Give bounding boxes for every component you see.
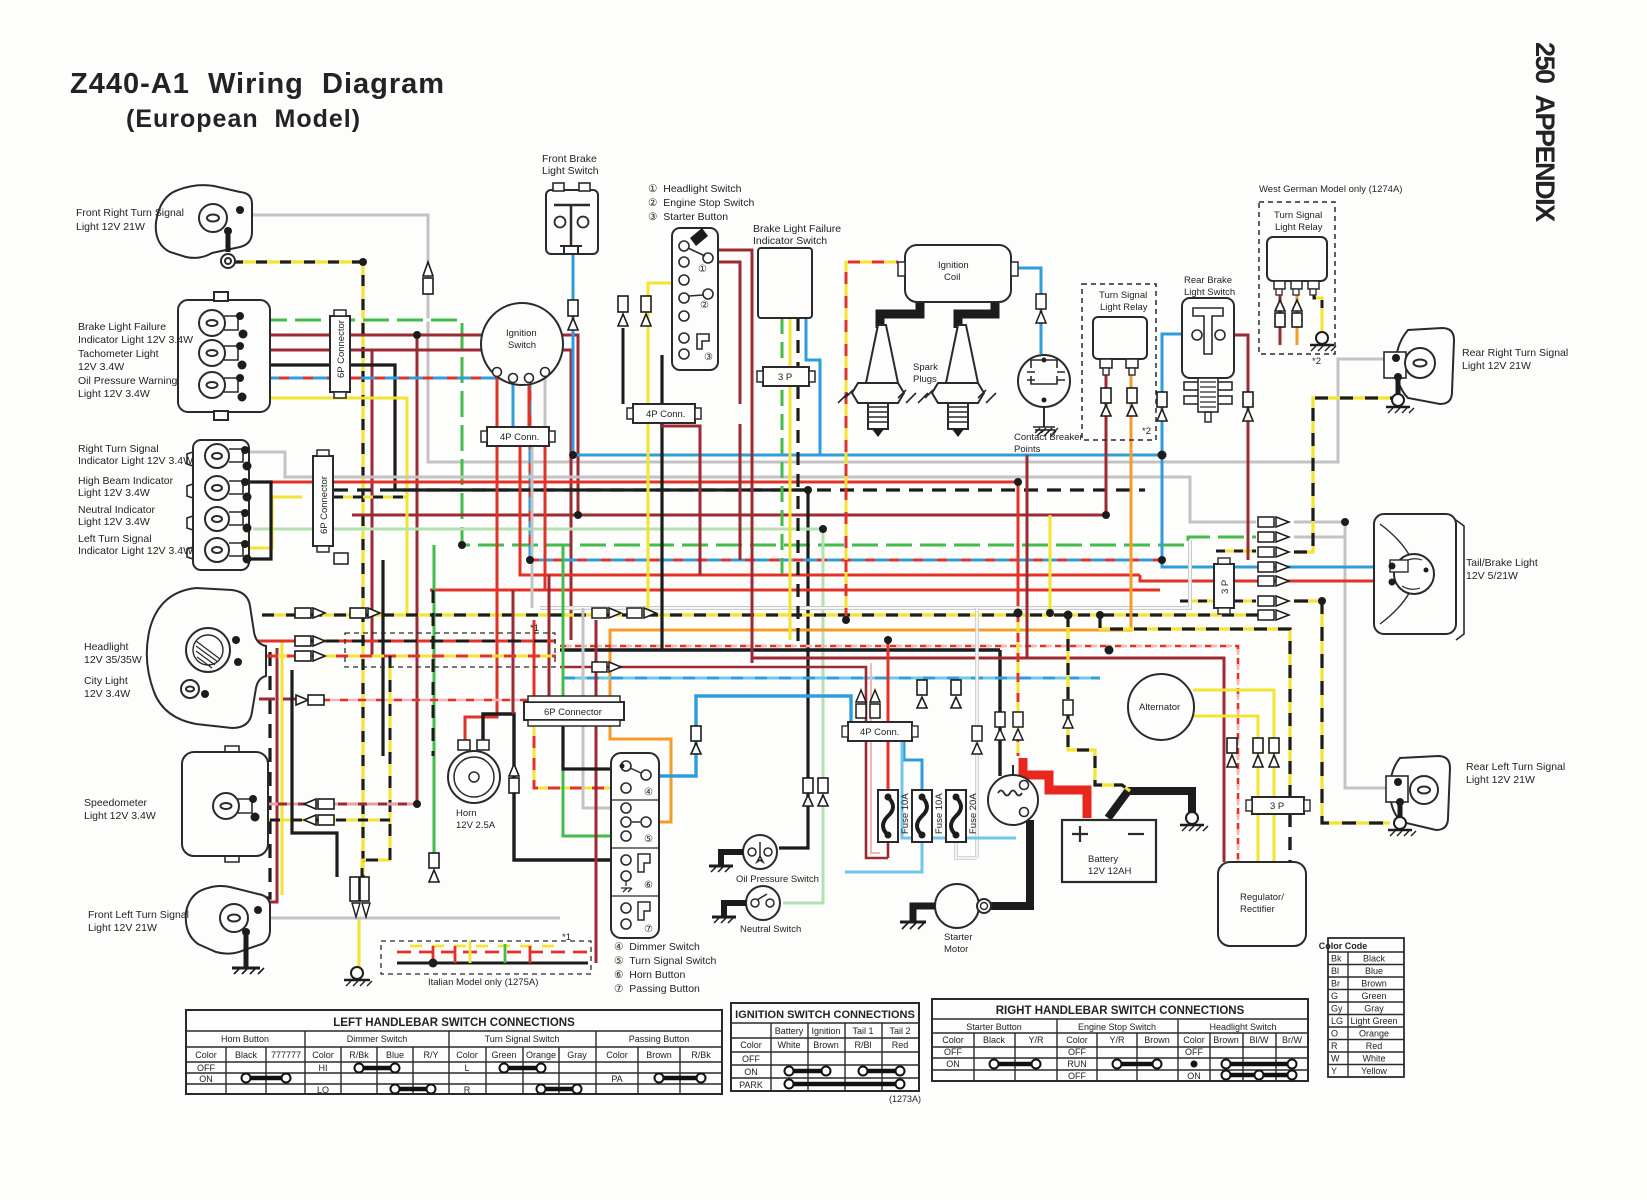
wire: italian box red	[397, 951, 588, 954]
wire: maroon vertical x430	[416, 335, 419, 804]
wire: red long center	[430, 589, 1160, 592]
svg-text:Orange: Orange	[1359, 1029, 1389, 1039]
relay: Turn Signal Light Relay (West German Model, dashed box)	[1259, 202, 1335, 354]
svg-text:Turn Signal: Turn Signal	[1274, 210, 1322, 221]
svg-text:Turn Signal Switch: Turn Signal Switch	[485, 1034, 560, 1044]
fuse: Fuse 10A (1)	[878, 790, 898, 842]
switch housing: left handlebar switch (dimmer/turn/horn/passing)	[611, 753, 659, 938]
svg-text:3 P: 3 P	[1270, 801, 1284, 812]
wire: headlight black lead	[236, 617, 250, 638]
starter relay	[988, 765, 1038, 825]
svg-text:12V 3.4W: 12V 3.4W	[84, 688, 130, 700]
svg-text:OFF: OFF	[1185, 1047, 1203, 1057]
svg-text:Rear Brake: Rear Brake	[1184, 275, 1232, 286]
svg-text:⑥ Horn Button: ⑥ Horn Button	[614, 969, 685, 981]
svg-text:Black: Black	[1363, 954, 1386, 964]
switch: Oil Pressure Switch	[743, 835, 777, 869]
svg-text:*1: *1	[562, 932, 571, 943]
svg-text:*2: *2	[1312, 356, 1321, 367]
horn 12V 2.5A	[448, 740, 500, 803]
svg-text:Indicator Light 12V 3.4W: Indicator Light 12V 3.4W	[78, 334, 193, 346]
svg-text:Light 12V 3.4W: Light 12V 3.4W	[78, 388, 150, 400]
svg-text:Regulator/: Regulator/	[1240, 892, 1284, 903]
svg-text:City Light: City Light	[84, 675, 128, 687]
svg-text:Color: Color	[195, 1050, 217, 1060]
svg-text:12V 3.4W: 12V 3.4W	[78, 361, 124, 373]
svg-text:Front Right Turn Signal: Front Right Turn Signal	[76, 207, 184, 219]
wire: maroon from right switch to 4P conn	[718, 262, 740, 404]
svg-text:Color Code: Color Code	[1319, 941, 1368, 951]
svg-text:3 P: 3 P	[778, 372, 792, 383]
wire: black from brake light failure switch	[796, 318, 799, 648]
svg-text:Right Turn Signal: Right Turn Signal	[78, 443, 159, 455]
svg-text:Speedometer: Speedometer	[84, 797, 148, 809]
relay: Turn Signal Light Relay (dashed box)	[1082, 284, 1156, 440]
wire: italian box black	[397, 962, 588, 965]
ground: front left turn signal ground	[232, 932, 264, 974]
ground: rear left turn signal ground	[1388, 802, 1416, 836]
svg-text:6P Connector: 6P Connector	[544, 707, 602, 718]
svg-text:Y/R: Y/R	[1109, 1035, 1125, 1045]
svg-text:Headlight: Headlight	[84, 641, 128, 653]
TABLES	[186, 938, 1404, 1104]
wire: black stub into 4P conn	[622, 328, 625, 404]
lamp: Front Right Turn Signal Light 12V 21W	[156, 185, 252, 268]
wire: maroon vertical right of coil	[1026, 455, 1029, 658]
wire: blue below 4P conn fuse area	[902, 741, 1016, 838]
svg-text:Brown: Brown	[1361, 979, 1387, 989]
wire: thick black coil to spark plug 2	[958, 300, 995, 328]
svg-text:Indicator Light 12V 3.4W: Indicator Light 12V 3.4W	[78, 455, 193, 467]
svg-text:777777: 777777	[271, 1050, 301, 1060]
svg-text:G: G	[1331, 991, 1338, 1001]
svg-text:Coil: Coil	[944, 272, 960, 283]
svg-text:250 APPENDIX: 250 APPENDIX	[1530, 42, 1560, 222]
wire: green 6P to left switch	[563, 545, 619, 836]
wire: black from right switch to 4P conn	[660, 355, 663, 404]
wire: red long upper	[520, 574, 1140, 577]
fuse: Fuse 20A	[946, 790, 966, 842]
svg-text:ON: ON	[1187, 1071, 1201, 1081]
wire: maroon long y515 to turn signal relay	[352, 375, 1106, 515]
svg-text:②: ②	[700, 300, 709, 311]
inline connector: light green neutral arrow	[818, 778, 828, 806]
wire: light green from neutral indicator to neutral switch	[253, 529, 823, 903]
wire: red/yellow dashed in *1 box	[300, 655, 556, 658]
wire: black long center	[560, 648, 1000, 651]
svg-text:Headlight Switch: Headlight Switch	[1209, 1022, 1276, 1032]
wire: blue from brake light failure switch right	[806, 318, 820, 455]
wire: gray tail light feed after connector	[1294, 536, 1345, 539]
inline connector: yellow/black battery feed	[1063, 700, 1073, 728]
inline connector: column feeding tail lamp	[1258, 517, 1289, 620]
wire: yellow/black stub to connector row 601	[1180, 600, 1256, 603]
inline connector: west german stubs arrows	[1275, 300, 1302, 327]
svg-text:Bl/W: Bl/W	[1250, 1035, 1270, 1045]
wire: contact breaker to harness	[1043, 354, 1045, 355]
svg-text:Z440-A1 Wiring Diagram: Z440-A1 Wiring Diagram	[70, 68, 445, 100]
wire: big blue route from left switch to 4P conn	[653, 696, 851, 776]
svg-text:Horn: Horn	[456, 808, 477, 819]
svg-text:Neutral Switch: Neutral Switch	[740, 924, 801, 935]
svg-text:④: ④	[644, 787, 653, 798]
lamp: Headlight 12V 35/35W with City Light	[147, 588, 266, 728]
svg-text:Starter Button: Starter Button	[966, 1022, 1022, 1032]
svg-text:Neutral Indicator: Neutral Indicator	[78, 504, 156, 516]
wire: blue 4P conn to fuse 2	[904, 741, 922, 790]
svg-text:② Engine Stop Switch: ② Engine Stop Switch	[648, 197, 754, 209]
svg-text:RUN: RUN	[1067, 1059, 1087, 1069]
inline connector: green wire end connector	[429, 853, 439, 882]
inline connector: pairs on yellow/black harness line	[592, 608, 656, 672]
wire: yellow/black y497 to x407 vertical	[333, 496, 407, 499]
svg-text:R/Y: R/Y	[423, 1050, 438, 1060]
wire: maroon vertical x513	[512, 590, 515, 714]
svg-text:Color: Color	[1066, 1035, 1088, 1045]
wire: maroon short left vertical	[371, 350, 374, 656]
connector: 3P (vertical, tail light)	[1214, 558, 1234, 614]
wire: red/black dashed in *1 box	[300, 640, 556, 643]
svg-text:*2: *2	[1142, 426, 1151, 437]
wire: red from high beam indicator across harness	[250, 482, 1018, 613]
table: Color Code	[1328, 938, 1404, 1077]
wire: yellow from brake light failure switch through 3P	[789, 318, 792, 640]
svg-text:Battery: Battery	[1088, 854, 1118, 865]
svg-text:⑤ Turn Signal Switch: ⑤ Turn Signal Switch	[614, 955, 717, 967]
connection bars: left handlebar table	[246, 1068, 701, 1089]
inline connector: blue route arrow	[691, 726, 701, 754]
wire: yellow from cluster bulb	[255, 398, 407, 615]
wire: speedometer yellow lead	[248, 819, 390, 822]
svg-text:Light 12V 21W: Light 12V 21W	[1462, 360, 1531, 372]
svg-text:Light 12V 21W: Light 12V 21W	[88, 922, 157, 934]
svg-text:White: White	[777, 1040, 800, 1050]
inline connector: blue coil wire connector	[1036, 294, 1046, 323]
ground: oil pressure switch ground	[709, 852, 743, 872]
wire: thick black starter motor to relay	[991, 820, 1030, 906]
svg-text:6P Connector: 6P Connector	[319, 476, 330, 534]
wire: yellow/black long from headlight area to rear	[262, 613, 1258, 616]
svg-text:⑦: ⑦	[644, 924, 653, 935]
table: LEFT HANDLEBAR SWITCH CONNECTIONS	[186, 1010, 722, 1094]
svg-text:Points: Points	[1014, 444, 1041, 455]
svg-text:OFF: OFF	[1068, 1047, 1086, 1057]
svg-text:Color: Color	[456, 1050, 478, 1060]
svg-text:Blue: Blue	[1365, 966, 1383, 976]
wire: black speedometer to yellow bundle	[292, 670, 337, 877]
ground: contact breaker ground (spark area)	[1035, 430, 1056, 436]
wire: maroon 6P down	[548, 575, 551, 696]
svg-text:Tail/Brake Light: Tail/Brake Light	[1466, 557, 1538, 569]
inline connector: turn relay maroon/orange arrows	[1101, 388, 1137, 416]
svg-text:③: ③	[704, 352, 713, 363]
svg-text:Alternator: Alternator	[1139, 702, 1180, 713]
wire: thick black coil to spark plug 1	[880, 300, 920, 328]
svg-text:3 P: 3 P	[1220, 580, 1231, 594]
svg-text:Green: Green	[1361, 991, 1386, 1001]
svg-text:Gy: Gy	[1331, 1004, 1343, 1014]
fuse: Fuse 10A (2)	[912, 790, 932, 842]
lamp: Tail/Brake Light 12V 5/21W	[1374, 514, 1464, 640]
svg-text:⑦ Passing Button: ⑦ Passing Button	[614, 983, 700, 995]
connector: 6P Connector (vertical, lower)	[313, 450, 348, 564]
wire: yellows 3P to regulator	[1258, 814, 1274, 862]
lamp: Front Left Turn Signal Light 12V 21W	[186, 886, 270, 954]
wire: maroon 6P down to italian box	[595, 620, 598, 963]
wire: yellow feed to starter relay	[1017, 613, 1020, 756]
wire: black cluster2 jumper	[236, 482, 271, 559]
svg-text:6P Connector: 6P Connector	[336, 320, 347, 378]
wire: thick red starter relay to battery	[1023, 758, 1087, 818]
wire: gray 6P to left switch	[583, 608, 619, 808]
svg-text:ON: ON	[199, 1074, 213, 1084]
svg-text:Motor: Motor	[944, 944, 968, 955]
alternator	[1128, 674, 1194, 740]
wire: red 6P connector down	[534, 620, 619, 788]
svg-text:Light 12V 3.4W: Light 12V 3.4W	[84, 810, 156, 822]
svg-text:R/Bl: R/Bl	[854, 1040, 871, 1050]
svg-text:Ignition: Ignition	[938, 260, 969, 271]
wire: light blue dashed long	[563, 677, 1100, 680]
wire: yellow left vertical	[281, 640, 284, 895]
svg-text:Brake Light Failure: Brake Light Failure	[78, 321, 166, 333]
wire: red 4P conn to fuse 1	[887, 640, 890, 790]
svg-text:OFF: OFF	[197, 1063, 215, 1073]
inline connector: horn black wire connector	[509, 764, 519, 793]
connector: 3P below brake light failure switch	[757, 367, 815, 386]
wire: gray below fuse 3	[956, 842, 977, 858]
svg-text:Y: Y	[1331, 1066, 1337, 1076]
wire: green/white from brake light failure indicator light	[253, 320, 1256, 545]
svg-text:Red: Red	[1366, 1041, 1383, 1051]
svg-text:Spark: Spark	[913, 362, 938, 373]
svg-text:R: R	[464, 1085, 471, 1095]
inline connector: bullet pairs on left harness	[295, 608, 380, 825]
svg-text:Fuse 10A: Fuse 10A	[900, 793, 911, 834]
svg-text:Light Switch: Light Switch	[1184, 287, 1235, 298]
wire: black tail harness to 3P and regulator	[1100, 615, 1290, 797]
switch: Ignition Switch	[481, 303, 563, 385]
starter motor	[935, 884, 991, 928]
connection bars: right handlebar table	[994, 1064, 1292, 1075]
wire: gray to rear left turn signal	[1294, 522, 1388, 788]
svg-text:(European Model): (European Model)	[126, 105, 361, 133]
svg-text:Color: Color	[942, 1035, 964, 1045]
battery 12V 12AH	[1062, 820, 1156, 882]
svg-text:R/Bk: R/Bk	[691, 1050, 711, 1060]
svg-text:PARK: PARK	[739, 1080, 763, 1090]
wire: black vertical x383	[381, 560, 384, 756]
svg-text:Color: Color	[606, 1050, 628, 1060]
svg-text:Dimmer Switch: Dimmer Switch	[347, 1034, 408, 1044]
svg-text:HI: HI	[319, 1063, 328, 1073]
dashed box: *1 harness detail	[345, 633, 555, 667]
svg-text:Oil Pressure Switch: Oil Pressure Switch	[736, 874, 819, 885]
wire: maroon rear brake switch down	[1221, 335, 1248, 560]
wire: yellow/black to rear right turn signal	[1294, 398, 1392, 552]
inline connector: fuse area connectors	[917, 680, 961, 708]
svg-text:Light 12V 3.4W: Light 12V 3.4W	[78, 516, 150, 528]
svg-text:R/Bk: R/Bk	[349, 1050, 369, 1060]
svg-text:Bk: Bk	[1331, 954, 1342, 964]
wire: italian box verticals	[432, 946, 435, 963]
connection bars: ignition switch table	[789, 1071, 900, 1084]
svg-text:⑤: ⑤	[644, 834, 653, 845]
svg-text:⑥: ⑥	[644, 880, 653, 891]
wire: blue below fuse 2	[845, 842, 922, 872]
wire: black top feed into left switch	[563, 719, 619, 769]
wire: maroon below 4P conn	[739, 424, 742, 560]
wire: blue/red from cluster	[255, 378, 1162, 560]
connector: 4P Conn. (under right switch)	[627, 404, 701, 423]
switch: Brake Light Failure Indicator Switch	[758, 248, 812, 318]
svg-text:Light Relay: Light Relay	[1100, 302, 1148, 313]
svg-text:Light 12V 21W: Light 12V 21W	[76, 221, 145, 233]
wire: headlight red lead	[236, 640, 300, 643]
wire: yellow below 4P conn	[647, 424, 650, 615]
svg-text:Front Brake: Front Brake	[542, 153, 597, 165]
svg-text:Rear Left Turn Signal: Rear Left Turn Signal	[1466, 761, 1565, 773]
wire: black from horn to left switch	[483, 714, 619, 860]
svg-text:Front Left Turn Signal: Front Left Turn Signal	[88, 909, 189, 921]
ground: west german relay ground	[1310, 332, 1336, 351]
wire: maroon left vertical pair to front left signal	[262, 648, 277, 902]
wire: yellow/black West German relay to ground	[1314, 292, 1322, 332]
svg-text:Light 12V 3.4W: Light 12V 3.4W	[78, 487, 150, 499]
svg-text:(1273A): (1273A)	[889, 1094, 921, 1104]
spark plug 2	[918, 325, 996, 437]
svg-text:Battery: Battery	[775, 1026, 804, 1036]
svg-text:Black: Black	[235, 1050, 258, 1060]
wire: maroon second below 4P conn	[660, 426, 700, 575]
svg-text:12V 5/21W: 12V 5/21W	[1466, 570, 1518, 582]
svg-text:LEFT HANDLEBAR SWITCH CONNE: LEFT HANDLEBAR SWITCH CONNECTIONS	[333, 1017, 575, 1029]
svg-text:Brown: Brown	[1213, 1035, 1239, 1045]
wire: maroon West German relay stub	[1279, 292, 1282, 345]
inline connector: alternator yellows arrows	[1227, 738, 1279, 767]
svg-text:Light Relay: Light Relay	[1275, 222, 1323, 233]
svg-text:LO: LO	[317, 1085, 329, 1095]
wire: red/white pink to regulator	[560, 646, 1238, 862]
svg-text:Color: Color	[312, 1050, 334, 1060]
svg-text:Left Turn Signal: Left Turn Signal	[78, 533, 152, 545]
ground: rear right turn signal ground	[1386, 377, 1414, 413]
connector: 6P Connector (horizontal, center)	[524, 696, 624, 726]
svg-text:West German Model only (1274A): West German Model only (1274A)	[1259, 184, 1402, 195]
wire: city light pink continuation	[322, 699, 560, 702]
svg-text:OFF: OFF	[944, 1047, 962, 1057]
svg-text:Fuse 20A: Fuse 20A	[968, 793, 979, 834]
svg-text:Tachometer Light: Tachometer Light	[78, 348, 159, 360]
wire: yellow/black right section to rear left signal	[1294, 601, 1390, 823]
wire: yellow from right switch to 4P conn	[648, 283, 679, 404]
svg-text:Indicator Light 12V 3.4W: Indicator Light 12V 3.4W	[78, 545, 193, 557]
svg-text:③ Starter Button: ③ Starter Button	[648, 211, 728, 223]
svg-text:①: ①	[698, 264, 707, 275]
svg-text:Br: Br	[1331, 979, 1340, 989]
wire: blue rear brake switch to tail light	[1162, 334, 1374, 567]
svg-text:Light Switch: Light Switch	[542, 165, 599, 177]
wire: gray double feed down right of fuses	[975, 608, 979, 858]
svg-text:Gray: Gray	[567, 1050, 587, 1060]
wire: maroon second from cluster down	[255, 350, 571, 640]
dashed box: Italian Model only (1275A)	[381, 941, 591, 974]
switch housing: right handlebar switch (headlight/engine stop/starter)	[672, 228, 718, 370]
svg-text:Passing Button: Passing Button	[629, 1034, 690, 1044]
svg-text:Rear Right Turn Signal: Rear Right Turn Signal	[1462, 347, 1568, 359]
ground: starter motor ground	[900, 906, 935, 929]
meter: Speedometer Light 12V 3.4W	[182, 746, 268, 862]
svg-text:RIGHT HANDLEBAR SWITCH CONN: RIGHT HANDLEBAR SWITCH CONNECTIONS	[996, 1005, 1245, 1017]
svg-text:Y/R: Y/R	[1028, 1035, 1044, 1045]
svg-text:Blue: Blue	[386, 1050, 404, 1060]
svg-text:4P Conn.: 4P Conn.	[860, 727, 899, 738]
wire: blue from front brake light switch across	[573, 255, 1162, 455]
svg-text:LG: LG	[1331, 1016, 1343, 1026]
inline connector: pair near ignition 4P	[618, 296, 651, 326]
wire: red into tail light	[1140, 575, 1374, 581]
connector: 4P Conn. (under ignition switch)	[481, 427, 555, 446]
inline connector: gray wire connector top	[423, 262, 433, 294]
wire: black from oil warning light to oil pressure switch	[255, 365, 808, 848]
inline connector: yellow starter relay feed	[972, 712, 1023, 754]
svg-text:Turn Signal: Turn Signal	[1099, 290, 1147, 301]
wire: yellow/black vertical to ground block	[362, 656, 390, 877]
svg-text:Tail 1: Tail 1	[852, 1026, 873, 1036]
connector: 6P Connector (vertical, upper)	[330, 310, 350, 398]
svg-text:Yellow: Yellow	[1361, 1066, 1387, 1076]
wire: yellow from left turn indicator	[250, 497, 302, 548]
svg-text:Brown: Brown	[646, 1050, 672, 1060]
svg-text:12V 12AH: 12V 12AH	[1088, 866, 1131, 877]
lamp: Rear Right Turn Signal Light 12V 21W	[1384, 328, 1454, 404]
ground: neutral switch ground	[712, 903, 746, 923]
wire: gray from right turn indicator across	[250, 452, 1256, 522]
svg-text:Color: Color	[1183, 1035, 1205, 1045]
inline connector: front brake switch lead connector	[568, 300, 578, 330]
svg-text:12V 35/35W: 12V 35/35W	[84, 654, 142, 666]
wire: maroon pair down left of fuses	[560, 667, 888, 858]
inline connector: maroon/pink pair near fuses	[856, 690, 880, 718]
wire: orange West German relay stub	[1296, 292, 1299, 345]
wire: gray from front right turn signal to rear right turn signal	[252, 215, 1386, 462]
svg-text:Color: Color	[740, 1040, 762, 1050]
svg-text:PA: PA	[611, 1074, 622, 1084]
switch: Front Brake Light Switch	[546, 183, 598, 254]
lamp: Rear Left Turn Signal Light 12V 21W	[1386, 756, 1450, 830]
inline connector: rear brake switch lead connectors	[1157, 392, 1253, 421]
svg-text:Light 12V 21W: Light 12V 21W	[1466, 774, 1535, 786]
wire: red to horn	[465, 446, 497, 740]
wire: blue from ignition coil right	[1018, 268, 1041, 354]
svg-text:White: White	[1362, 1054, 1385, 1064]
wire: headlight red/yellow lead	[238, 655, 300, 658]
svg-text:Brake Light Failure: Brake Light Failure	[753, 223, 841, 235]
svg-text:ON: ON	[744, 1067, 758, 1077]
svg-text:Gray: Gray	[1364, 1004, 1384, 1014]
svg-text:Ignition: Ignition	[506, 328, 537, 339]
wire: city light lead maroon	[211, 698, 298, 701]
wire: yellow/black from harness down to battery minus	[1068, 615, 1130, 791]
wire: red/yellow to ignition coil	[846, 262, 898, 620]
switch: Neutral Switch	[746, 886, 780, 920]
svg-text:Orange: Orange	[526, 1050, 556, 1060]
svg-text:Plugs: Plugs	[913, 374, 937, 385]
svg-text:12V 2.5A: 12V 2.5A	[456, 820, 496, 831]
wire: yellow/black from front right turn signal down left harness	[232, 262, 363, 877]
svg-text:Starter: Starter	[944, 932, 973, 943]
WIRES_BELOW	[211, 215, 1392, 968]
